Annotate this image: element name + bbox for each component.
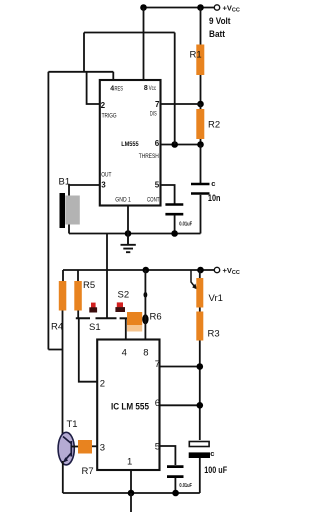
wire top ground rail (69, 233, 201, 235)
node +Vcc terminal (middle) (214, 267, 219, 272)
wire pin 5 (160, 446, 176, 465)
resistor R1 (196, 45, 204, 76)
svg-text:10n: 10n (208, 193, 221, 204)
wire pin 1 GND drop (127, 206, 129, 234)
node THRESH-R2 junction (197, 141, 204, 148)
wire T1 emitter down (62, 461, 64, 493)
node rail Vr1 junction (197, 267, 204, 274)
wire Vcc top rail (144, 7, 215, 9)
node bottom rail cap junction (172, 490, 179, 497)
resistor R4 (62, 270, 64, 281)
svg-text:S1: S1 (89, 322, 101, 333)
wire +Vcc middle rail (63, 269, 214, 271)
svg-text:T1: T1 (67, 419, 78, 430)
wire 100uF bottom lead (199, 458, 201, 493)
wire pin 1 drop (130, 470, 132, 493)
op-amp U1 top IC LM555 box (100, 80, 161, 206)
wire S2 to pin 4 (125, 318, 127, 339)
svg-text:0.01uF: 0.01uF (179, 222, 192, 228)
wire 10n cap bottom lead (200, 195, 202, 234)
wire pin 2 to S1 (79, 318, 97, 381)
svg-text:Vr1: Vr1 (209, 293, 223, 304)
wire left long vertical (trigger net down to T1 collector) (48, 72, 62, 350)
svg-text:S2: S2 (118, 290, 130, 301)
wire R2 leads (200, 104, 202, 145)
svg-text:5: 5 (155, 441, 160, 452)
svg-text:6: 6 (155, 398, 160, 409)
svg-text:6: 6 (155, 139, 160, 148)
wire pin 7 DIS (161, 103, 201, 105)
op-amp U2 bottom IC box (97, 340, 159, 471)
node small junction on pin8 riser (144, 292, 148, 298)
svg-text:0.01uF: 0.01uF (179, 483, 192, 489)
node THRESH-bypass junction (171, 141, 178, 148)
capacitor 0.01uF (bottom) (167, 465, 184, 468)
switch S1 (76, 317, 117, 319)
node pin7 junction (197, 101, 204, 108)
svg-text:4: 4 (122, 347, 127, 358)
svg-text:R1: R1 (190, 50, 202, 61)
svg-text:c: c (211, 179, 215, 188)
wire R1 bottom lead (200, 75, 202, 104)
svg-text:2: 2 (100, 379, 105, 390)
svg-text:CONT: CONT (147, 196, 160, 203)
wire R5 bottom lead (77, 311, 79, 319)
potentiometer Vr1 (199, 270, 201, 278)
wire T1 base to R7 (71, 446, 78, 448)
ground (121, 234, 136, 253)
svg-text:c: c (210, 449, 214, 458)
wire 10n cap top lead (200, 145, 202, 184)
wire B1 bottom lead (68, 225, 70, 234)
wire pin 7 (160, 366, 200, 368)
node bottom rail pin1 junction (128, 490, 135, 497)
svg-text:8: 8 (144, 85, 148, 92)
switch S2 (120, 317, 129, 319)
svg-text:R6: R6 (150, 312, 162, 323)
wire R1 top lead (200, 8, 202, 45)
potentiometer Vr1 arrow (191, 271, 195, 287)
wire pin 6 (160, 404, 200, 406)
svg-text:R3: R3 (208, 329, 220, 340)
node top rail left junction (140, 4, 147, 11)
svg-text:1: 1 (127, 457, 132, 468)
wire pin8 Vcc drop (143, 8, 145, 81)
svg-text:IC LM 555: IC LM 555 (111, 401, 150, 412)
svg-text:2: 2 (101, 101, 106, 110)
svg-text:7: 7 (155, 359, 160, 370)
node R1 top junction (197, 4, 204, 11)
svg-text:THRESH: THRESH (139, 154, 159, 160)
svg-text:5: 5 (155, 181, 160, 190)
wire R4 bottom to T1 collector (62, 311, 64, 437)
svg-text:7: 7 (155, 100, 160, 109)
svg-text:3: 3 (100, 442, 105, 453)
resistor R7 (78, 440, 92, 454)
capacitor c 100uF electrolytic (189, 442, 209, 447)
node +Vcc terminal (top) (214, 5, 219, 10)
svg-text:RES: RES (115, 87, 124, 93)
svg-text:Vcc: Vcc (149, 86, 156, 92)
wire bottom exit (130, 493, 132, 512)
node pin7 junction (197, 363, 204, 370)
node GND rail cap junction (171, 230, 178, 237)
capacitor 0.01uF (top) (165, 203, 183, 206)
svg-text:R4: R4 (51, 322, 63, 333)
resistor R2 (196, 109, 204, 139)
svg-text:GND 1: GND 1 (115, 196, 131, 203)
svg-text:Batt: Batt (209, 29, 225, 39)
svg-text:R5: R5 (83, 280, 95, 291)
wire pin 6 THRESH (161, 144, 201, 146)
svg-text:DIS: DIS (150, 112, 157, 118)
svg-text:OUT: OUT (101, 171, 111, 178)
wire trigger bypass: pin2 to thresh (48, 33, 174, 145)
wire pin 5 CONT (161, 185, 175, 204)
wire R7 to pin 3 (92, 445, 97, 447)
svg-text:R7: R7 (82, 466, 94, 477)
wire 0.01uF bottom lead (174, 478, 176, 494)
wire R3 bottom to caps (199, 341, 201, 441)
svg-text:3: 3 (101, 181, 106, 190)
wire ground stub to S1/S2 common (106, 234, 108, 319)
resistor R6 (127, 312, 142, 325)
wire bottom ground rail (63, 492, 200, 494)
resistor R3 (196, 312, 203, 341)
wire Vr1-R3 link (199, 308, 201, 312)
wire 0.01uF bottom lead (174, 215, 176, 233)
wire pin 3 OUT to B1 (69, 185, 100, 196)
svg-text:TRIGG: TRIGG (102, 112, 117, 119)
svg-text:9 Volt: 9 Volt (209, 16, 231, 26)
svg-text:B1: B1 (59, 176, 71, 187)
resistor R5 (77, 270, 79, 281)
node GND rail pin1 junction (125, 230, 132, 237)
svg-text:100 uF: 100 uF (204, 465, 227, 476)
node rail R6 junction (143, 267, 150, 274)
node pin6 junction (197, 402, 204, 409)
wire rail to pin 8 through R6 junction (144, 270, 146, 340)
svg-text:R2: R2 (208, 120, 220, 131)
svg-text:LM555: LM555 (121, 141, 139, 148)
svg-text:8: 8 (143, 347, 148, 358)
node R6 right junction (142, 314, 148, 324)
capacitor c 10n (191, 183, 210, 186)
